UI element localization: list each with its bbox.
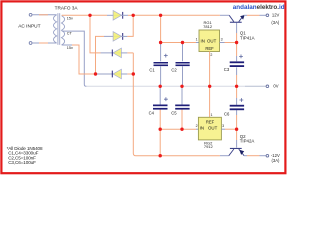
junction dots top rail [88,14,162,17]
wire Q1 emitter to +12V terminal [244,14,266,16]
svg-text:7912: 7912 [204,144,214,149]
svg-text:Q1: Q1 [240,30,246,35]
capacitor C1 [154,54,169,66]
wire D1 cathode lead [122,14,134,16]
svg-text:OUT: OUT [208,126,218,131]
wire U2 output to Q2 base junction [221,128,236,130]
svg-text:REF: REF [205,46,214,51]
svg-text:(3A): (3A) [271,20,280,25]
junction dot negative rail [159,154,162,157]
capacitor C4 [153,97,168,109]
svg-text:C2: C2 [171,67,177,72]
wire top positive rail [133,14,229,16]
svg-text:C1: C1 [149,67,155,72]
svg-text:C3,C6=100uF: C3,C6=100uF [8,160,36,165]
wire C1 branch vertical [160,15,162,86]
svg-text:IN: IN [201,39,205,44]
svg-text:andalanelektro.id: andalanelektro.id [233,4,285,11]
terminal +12V [266,14,269,17]
junction dots 0V rail [159,85,239,88]
transformer T1 core [58,13,60,45]
diode D3 [112,48,122,58]
terminal AC top [29,13,32,16]
svg-text:C4: C4 [149,110,155,115]
regulator U1 7812 [199,30,220,52]
wire C3 branch vertical [236,43,238,87]
svg-text:OUT: OUT [207,39,217,44]
wire C5 branch vertical [181,86,183,129]
svg-text:1: 1 [211,113,213,117]
diode D2 [113,32,123,42]
capacitor C3 [230,55,244,68]
wire U1 output to Q1 base junction [220,42,237,44]
wire REF rail vertical [209,52,211,118]
svg-text:IN: IN [200,126,204,131]
svg-text:C6: C6 [224,111,230,116]
svg-text:TIP42A: TIP42A [240,139,255,144]
wire node A vertical x90 to D3 cathode [90,15,122,53]
wire bottom tap to D4 node [62,45,96,74]
wire C6 branch vertical [236,86,238,129]
wire CT to 0V rail [62,31,87,86]
capacitor C5 [175,105,189,107]
svg-text:AC INPUT: AC INPUT [18,24,40,30]
svg-text:TIP41A: TIP41A [240,36,255,41]
wire negative vertical and bottom rail [133,53,229,156]
wire C4 branch vertical [159,86,161,155]
svg-text:3: 3 [222,124,224,128]
terminal AC bottom [29,42,32,45]
svg-text:15v: 15v [67,46,73,50]
diode D1 [113,11,123,21]
transformer T1 primary [54,15,57,43]
wire Q2 emitter to -12V terminal [244,155,266,157]
capacitor C6 [230,98,244,110]
wire D4 anode lead [121,73,133,75]
wire Q2 base lead [236,129,238,147]
svg-text:TRAFO 3A: TRAFO 3A [55,6,79,11]
wire negative input rail to U2 [160,128,198,130]
svg-text:0V: 0V [273,83,278,88]
wire D4 left lead [97,73,122,75]
terminal 0V [266,85,269,88]
junction dots negative input rail [159,128,239,131]
junction dots input rail [159,41,238,44]
svg-text:1: 1 [196,37,198,41]
diode D4 [112,69,122,79]
wire regulator input rail [161,42,199,44]
regulator U2 7912 [198,117,221,140]
notes [7,146,43,165]
wire AC top [32,14,56,16]
wire D2 cathode to top rail junction [122,15,134,36]
wire top tap to D1 [62,14,122,16]
capacitor C2 [176,62,190,64]
svg-text:2: 2 [210,53,212,57]
wire vertical x95.5 to D2 anode [96,36,123,74]
wire 0V rail [86,85,266,87]
transformer T1 secondary [62,16,65,45]
svg-text:3: 3 [221,37,223,41]
transistor Q1 [229,15,244,23]
wire C2 branch vertical [182,43,184,87]
junction dots D4 row [94,72,135,75]
svg-text:7812: 7812 [203,24,213,29]
transistor Q2 [229,148,244,156]
svg-text:CT: CT [67,32,73,36]
wire D3 anode to negative vertical [121,52,133,54]
wire AC bottom [32,42,56,44]
svg-text:15v: 15v [67,17,73,21]
terminal -12V [266,154,269,157]
svg-text:C5: C5 [171,110,177,115]
svg-text:12V: 12V [272,12,280,17]
wire Q1 base lead [236,23,238,43]
svg-text:REF: REF [206,120,215,125]
svg-text:(3A): (3A) [272,158,281,163]
svg-text:C3: C3 [224,67,230,72]
border frame [1,1,285,173]
svg-text:2: 2 [196,124,198,128]
